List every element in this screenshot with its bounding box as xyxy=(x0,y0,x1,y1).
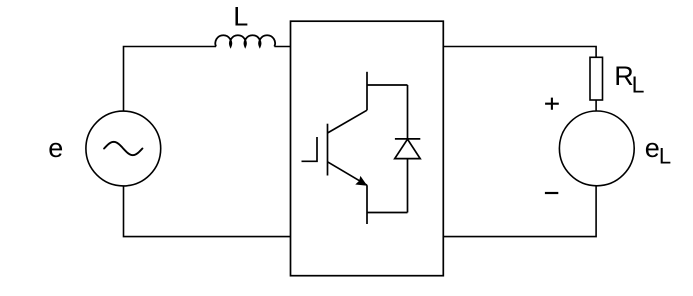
inductor L xyxy=(215,35,275,46)
AC source sine wave xyxy=(104,142,142,155)
diode D triangle xyxy=(395,139,421,158)
svg-text:L: L xyxy=(233,2,248,32)
IGBT emitter arrow xyxy=(355,176,367,186)
wire: load circle bottom to converter box right (bottom) xyxy=(443,186,596,237)
diode D cathode bar xyxy=(395,138,420,140)
wire: converter box right to resistor top xyxy=(443,47,596,58)
load source circle eL xyxy=(559,111,634,186)
AC source circle xyxy=(86,111,161,186)
svg-text:e: e xyxy=(645,133,660,163)
minus sign xyxy=(545,192,558,194)
wire: bottom-left from source bottom to converter box left xyxy=(124,186,291,237)
converter box xyxy=(291,21,444,276)
wire: inductor to converter box left xyxy=(274,46,290,48)
svg-text:L: L xyxy=(659,143,671,168)
svg-text:L: L xyxy=(632,71,645,97)
IGBT body bar xyxy=(327,124,329,176)
diode D vertical lead xyxy=(407,85,409,213)
IGBT emitter diagonal xyxy=(328,162,368,185)
IGBT collector diagonal xyxy=(328,110,368,133)
svg-text:e: e xyxy=(48,133,63,163)
IGBT collector stub xyxy=(366,72,368,110)
resistor RL xyxy=(590,57,603,100)
plus sign xyxy=(545,98,559,110)
IGBT gate lead xyxy=(302,137,318,161)
wire: bottom bar IGBT emitter to diode anode xyxy=(367,212,408,214)
IGBT emitter stub xyxy=(366,185,368,224)
wire: resistor bottom to load circle top xyxy=(595,100,597,111)
wire: top-left horizontal from source corner to inductor xyxy=(124,47,217,112)
wire: top bar IGBT collector to diode cathode xyxy=(367,84,408,86)
